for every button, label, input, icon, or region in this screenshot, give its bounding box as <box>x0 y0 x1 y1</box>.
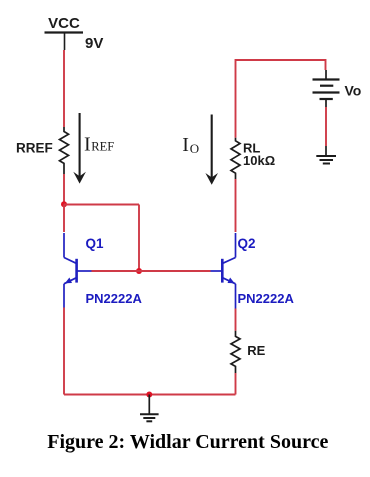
svg-text:RE: RE <box>247 343 265 358</box>
svg-text:Vo: Vo <box>345 83 362 99</box>
wire node A right <box>64 204 139 206</box>
svg-text:Figure 2: Widlar Current Sourc: Figure 2: Widlar Current Source <box>47 431 328 453</box>
wire RL to Q2 collector <box>235 179 237 232</box>
node B junction <box>136 268 142 274</box>
ground bottom <box>140 395 159 422</box>
wire Q2 emitter to RE <box>235 309 237 331</box>
resistor RE <box>231 331 240 373</box>
wire base rail <box>92 270 211 272</box>
power VCC <box>45 15 84 50</box>
current arrow IREF <box>73 113 86 184</box>
wire bottom rail <box>64 394 236 396</box>
transistor Q2 <box>211 233 236 309</box>
node ground junction <box>146 392 152 398</box>
wire battery to ground <box>325 107 327 146</box>
svg-text:REF: REF <box>91 140 114 154</box>
svg-text:9V: 9V <box>85 35 103 52</box>
battery V1 <box>313 70 340 107</box>
wire VCC to RREF <box>63 50 65 127</box>
wire down to base rail <box>138 205 140 272</box>
label IREF <box>84 133 114 155</box>
wire RE to bottom rail <box>235 373 237 395</box>
svg-text:RREF: RREF <box>16 141 53 156</box>
wire RREF to node A <box>63 174 65 205</box>
transistor Q1 <box>64 233 92 308</box>
svg-text:PN2222A: PN2222A <box>238 291 295 306</box>
wire node A to Q1 collector <box>63 205 65 233</box>
wire top rail <box>236 60 326 138</box>
current arrow IO <box>205 115 218 185</box>
svg-text:I: I <box>182 134 189 156</box>
wire Q1 emitter down <box>63 308 65 395</box>
svg-text:Q1: Q1 <box>86 236 105 251</box>
ground right <box>316 146 336 164</box>
resistor RL <box>231 138 240 179</box>
svg-text:I: I <box>84 133 91 155</box>
node A junction <box>61 201 67 207</box>
svg-text:VCC: VCC <box>48 15 80 32</box>
label IO <box>182 134 199 156</box>
svg-text:PN2222A: PN2222A <box>86 291 143 306</box>
svg-text:10kΩ: 10kΩ <box>243 153 275 168</box>
svg-text:Q2: Q2 <box>238 236 256 251</box>
resistor RREF <box>60 127 69 174</box>
svg-text:O: O <box>190 141 199 156</box>
